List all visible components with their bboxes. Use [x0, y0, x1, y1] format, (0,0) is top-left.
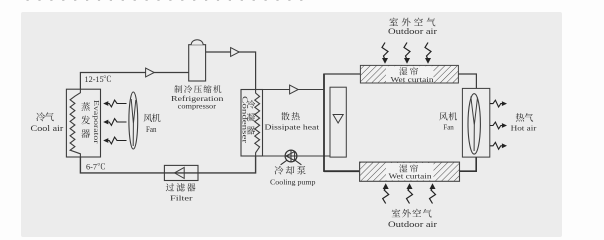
svg-text:6-7: 6-7	[86, 163, 97, 172]
svg-text:Fan: Fan	[443, 122, 454, 131]
svg-text:Hot air: Hot air	[511, 124, 537, 133]
svg-text:Wet curtain: Wet curtain	[389, 172, 432, 181]
svg-text:compressor: compressor	[178, 102, 217, 111]
svg-text:Dissipate heat: Dissipate heat	[265, 122, 321, 131]
svg-text:Fan: Fan	[146, 125, 157, 134]
svg-text:Cool air: Cool air	[31, 124, 64, 133]
svg-text:Wet curtain: Wet curtain	[391, 75, 434, 84]
svg-text:Outdoor air: Outdoor air	[388, 26, 437, 36]
svg-text:Cooling pump: Cooling pump	[270, 177, 316, 186]
svg-text:Condenser: Condenser	[241, 96, 249, 144]
svg-text:12-15: 12-15	[85, 75, 104, 84]
svg-text:Evaporator: Evaporator	[92, 100, 100, 144]
svg-text:Filter: Filter	[170, 194, 193, 203]
svg-text:Outdoor air: Outdoor air	[388, 219, 437, 229]
